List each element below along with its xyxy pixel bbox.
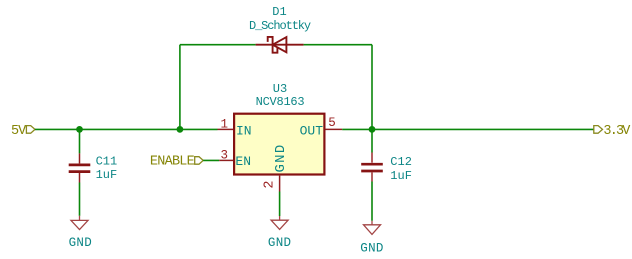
global label ENABLE (150, 154, 203, 169)
wire top rail right segment (304, 44, 372, 46)
op-amp U3 body (234, 114, 324, 175)
wire C12 to ground (371, 182, 373, 221)
svg-text:3.3V: 3.3V (603, 124, 631, 139)
wire U3 GND pin to ground (279, 192, 281, 217)
wire C11 to ground (79, 183, 81, 216)
ground symbol under U3 (271, 216, 288, 229)
svg-text:NCV8163: NCV8163 (256, 95, 305, 109)
svg-text:EN: EN (235, 154, 251, 169)
pin 3 lead (219, 159, 233, 161)
pin 1 lead (218, 128, 234, 130)
pin 5 lead (326, 128, 343, 130)
svg-text:D1: D1 (272, 5, 286, 19)
svg-text:GND: GND (273, 143, 289, 172)
global label 5V (11, 124, 35, 139)
wire right riser down to output node (371, 45, 373, 130)
svg-text:GND: GND (360, 242, 383, 256)
wire junction to C11 (79, 129, 81, 153)
svg-text:C12: C12 (390, 155, 412, 169)
wire OUT pin to 3.3V (342, 128, 594, 130)
svg-text:5: 5 (328, 116, 336, 130)
svg-text:D_Schottky: D_Schottky (249, 19, 311, 33)
junction at output node (369, 126, 376, 133)
svg-text:ENABLE: ENABLE (150, 154, 195, 169)
svg-text:C11: C11 (96, 155, 118, 169)
svg-text:GND: GND (69, 236, 92, 250)
pin 2 lead (279, 176, 281, 192)
wire junction to C12 (371, 129, 373, 152)
wire top rail left segment (180, 44, 256, 46)
junction at left vertical riser (177, 126, 184, 133)
svg-text:2: 2 (263, 181, 278, 189)
capacitor C12 (361, 153, 383, 182)
wire ENABLE to pin 3 of U3 (203, 159, 219, 161)
junction at C11 branch (76, 126, 83, 133)
ground symbol under C12 (364, 221, 381, 235)
svg-text:1uF: 1uF (96, 168, 118, 182)
ground symbol under C11 (71, 216, 88, 230)
capacitor C11 (69, 153, 91, 182)
svg-text:5V: 5V (11, 124, 27, 139)
svg-text:3: 3 (221, 148, 229, 162)
wire 5V to pin 1 of U3 (35, 128, 218, 130)
svg-text:IN: IN (236, 123, 252, 138)
svg-text:1: 1 (221, 118, 229, 132)
global label 3.3V (594, 124, 632, 139)
wire left riser up to diode rail (179, 45, 181, 130)
svg-text:1uF: 1uF (390, 169, 412, 183)
svg-text:OUT: OUT (300, 123, 324, 138)
svg-text:GND: GND (268, 236, 291, 250)
diode D1 (256, 37, 304, 53)
